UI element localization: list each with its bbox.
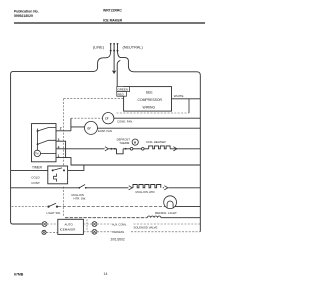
svg-text:SOLENOID VALVE: SOLENOID VALVE xyxy=(134,226,158,230)
svg-text:AUTO: AUTO xyxy=(65,222,74,226)
svg-text:COIL HEATER: COIL HEATER xyxy=(146,140,167,144)
svg-text:ICEMAKER: ICEMAKER xyxy=(60,228,77,232)
svg-text:GREEN: GREEN xyxy=(118,88,128,92)
svg-text:2/01/2002: 2/01/2002 xyxy=(111,238,125,242)
svg-text:THERM.: THERM. xyxy=(119,141,130,145)
svg-text:COMPRESSOR: COMPRESSOR xyxy=(138,98,163,102)
svg-text:HTR. SW.: HTR. SW. xyxy=(74,197,87,201)
svg-text:14: 14 xyxy=(104,272,108,276)
svg-text:WHITE: WHITE xyxy=(174,94,184,98)
svg-text:ICE MAKER: ICE MAKER xyxy=(103,19,123,23)
svg-text:LIGHT SW.: LIGHT SW. xyxy=(47,211,61,215)
svg-text:SEE: SEE xyxy=(146,90,154,94)
svg-text:(LINE): (LINE) xyxy=(93,45,105,49)
svg-text:(NEUTRAL): (NEUTRAL) xyxy=(123,45,144,49)
svg-text:HARNESS: HARNESS xyxy=(112,231,124,234)
svg-text:COLD: COLD xyxy=(31,175,40,179)
svg-text:TIMER: TIMER xyxy=(32,165,43,169)
svg-text:TM: TM xyxy=(35,152,39,156)
svg-text:Publication No.: Publication No. xyxy=(14,10,39,14)
svg-text:COND. FAN: COND. FAN xyxy=(117,120,132,124)
svg-text:EVAP. FAN: EVAP. FAN xyxy=(98,129,112,133)
svg-text:M: M xyxy=(134,140,136,144)
svg-text:MULLION HTR.: MULLION HTR. xyxy=(136,190,156,194)
svg-text:REFRIG. LIGHT: REFRIG. LIGHT xyxy=(155,211,177,215)
svg-text:AUX. CONN.: AUX. CONN. xyxy=(112,223,127,226)
svg-text:RED: RED xyxy=(118,92,124,96)
svg-text:5995218029: 5995218029 xyxy=(14,14,33,18)
svg-text:EF: EF xyxy=(88,126,92,130)
svg-text:WIRING: WIRING xyxy=(143,105,156,109)
svg-text:WRT22RRC: WRT22RRC xyxy=(103,9,122,13)
svg-text:CONT.: CONT. xyxy=(31,181,40,185)
svg-text:2: 2 xyxy=(60,127,62,131)
svg-text:CF: CF xyxy=(105,116,109,120)
svg-text:67MB: 67MB xyxy=(14,273,24,277)
